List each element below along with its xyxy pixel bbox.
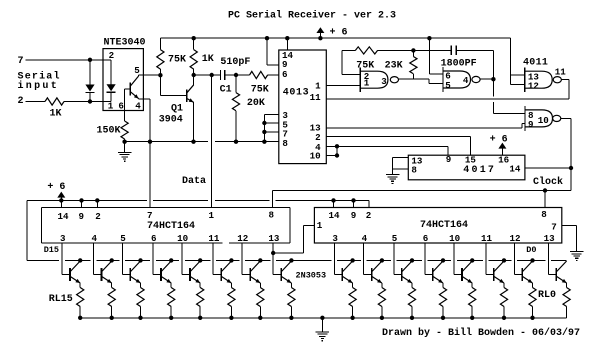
pin 11 label (4013) — [310, 92, 322, 103]
transistor Q5 (driver D3) — [462, 258, 474, 283]
svg-text:8: 8 — [541, 209, 547, 220]
transistor Q9 (driver D7) — [342, 258, 354, 283]
svg-text:1800PF: 1800PF — [441, 59, 477, 70]
svg-text:D15: D15 — [44, 245, 59, 255]
svg-text:7: 7 — [147, 210, 153, 221]
pin 7 label (right164) — [551, 222, 557, 233]
pin 6 label (left164 output Q3) — [151, 233, 157, 244]
wire +6 distribution (left) — [27, 200, 369, 207]
wire output D5 from shift register — [394, 243, 402, 275]
svg-text:12: 12 — [509, 233, 520, 244]
wire 75K to 4013 pin 6 — [268, 74, 279, 76]
svg-text:11: 11 — [310, 92, 322, 103]
pin 10 label (right164 output Q4) — [449, 233, 460, 244]
pin 5 label (right164 output Q2) — [392, 233, 398, 244]
wire opto junction to Q1 base — [160, 75, 186, 95]
pin 16 label (4017) — [498, 155, 509, 166]
wire C1 to 75K — [225, 73, 250, 77]
label 4017 — [463, 165, 496, 176]
svg-text:2: 2 — [366, 210, 372, 221]
node emitter junction D5 — [410, 316, 414, 320]
svg-text:6: 6 — [151, 233, 157, 244]
svg-text:1: 1 — [209, 210, 215, 221]
capacitor 1800pF — [451, 46, 456, 56]
wire gate1 out to gate2 pin5 — [399, 79, 444, 84]
pin 9 label (left164) — [79, 211, 85, 222]
pin 15 label (4017) — [465, 155, 477, 166]
pin 9 label (4013) — [282, 59, 288, 70]
svg-text:+ 6: + 6 — [330, 27, 348, 38]
svg-text:C1: C1 — [220, 85, 232, 96]
wire output D7 from shift register — [334, 243, 342, 275]
svg-text:1: 1 — [364, 78, 370, 89]
transistor Q13 (driver D11) — [190, 258, 202, 283]
ground (bottom rail) — [316, 316, 330, 341]
pin 12 label (right164 output Q6) — [509, 233, 520, 244]
resistor 23K — [410, 50, 417, 79]
label input — [18, 80, 60, 92]
transistor Q15 (driver D13) — [130, 258, 142, 283]
node emitter junction D8 — [289, 316, 293, 320]
wire +6 stubs right 74HCT164 — [331, 198, 355, 207]
label 1800PF — [441, 59, 477, 70]
svg-text:11: 11 — [481, 233, 493, 244]
svg-text:10: 10 — [310, 151, 321, 162]
svg-text:9: 9 — [351, 210, 357, 221]
svg-text:20K: 20K — [247, 98, 265, 109]
node emitter junction D1 — [530, 316, 534, 320]
pin 1 label (left164) — [209, 210, 215, 221]
transistor Q7 (driver D5) — [402, 258, 414, 283]
wire gate2 output — [480, 78, 493, 80]
pin 2 label (gate1) — [364, 71, 370, 82]
wire Q1 collector to C1 — [194, 73, 221, 77]
pin 3 label (right164 output Q0) — [332, 233, 338, 244]
resistor RL8 — [288, 283, 295, 318]
title text — [228, 10, 396, 22]
wire +6 to gate2 pin6 — [427, 36, 443, 74]
label 75K (opto pullup) — [168, 54, 186, 65]
label D0 — [526, 245, 536, 255]
label 1K (input resistor) — [50, 109, 62, 120]
flip-flop U2 4013 box — [279, 50, 327, 164]
power +6 arrow (left) — [47, 182, 65, 200]
pin 3 label (gate1) — [381, 76, 387, 87]
label 150K — [97, 126, 121, 137]
wire +6 rail (top) — [160, 37, 510, 39]
svg-text:2: 2 — [109, 50, 115, 61]
svg-text:3: 3 — [60, 233, 66, 244]
label 3904 — [159, 114, 183, 125]
svg-text:D0: D0 — [526, 245, 536, 255]
wire collector +6 rail (y260) — [27, 259, 566, 261]
svg-text:13: 13 — [268, 233, 280, 244]
wire 4017 pins 13+8 to ground — [393, 158, 409, 174]
wire serial-in pin2 to R-1K — [25, 101, 45, 103]
ground (150K node) — [118, 140, 132, 162]
pin 12 label (gate3) — [528, 81, 539, 92]
pin 2 label (opto) — [109, 50, 115, 61]
wire cascade left pin13 to right pin1 — [271, 226, 314, 256]
svg-text:4: 4 — [135, 100, 141, 111]
pin 12 label (left164 output Q6) — [237, 233, 248, 244]
svg-text:14: 14 — [328, 210, 340, 221]
svg-text:8: 8 — [269, 210, 275, 221]
op-amp U3a NAND gate 1 (4011 pins 2,1->3) — [360, 67, 398, 92]
ground (4017 pins 13,8) — [386, 169, 400, 184]
wire output D14 from shift register — [94, 243, 102, 275]
shift register U5 74HCT164 box (left) — [41, 208, 290, 244]
svg-text:8: 8 — [282, 138, 288, 149]
pin 3 label (4013) — [282, 110, 288, 121]
pin 13 label (right164 output Q7) — [544, 233, 556, 244]
pin 2 label (left164) — [95, 211, 101, 222]
wire ground net (y142) — [125, 141, 279, 143]
svg-text:3: 3 — [381, 76, 387, 87]
svg-text:5: 5 — [392, 233, 398, 244]
label Data — [182, 176, 206, 187]
power +6 arrow (top) — [316, 27, 324, 40]
svg-text:1: 1 — [315, 80, 321, 91]
svg-text:8: 8 — [411, 164, 417, 175]
label 20K — [247, 98, 265, 109]
wire serial-in pin7 to optocoupler anode — [25, 58, 111, 62]
svg-text:2N3053: 2N3053 — [296, 270, 327, 280]
pin 9 label (right164) — [351, 210, 357, 221]
wire 4013 pin2 to 4017 pin15 — [326, 137, 470, 156]
wire output D3 from shift register — [454, 243, 462, 275]
pin 6 label (opto) — [118, 100, 124, 111]
transistor Q16 (driver D14) — [102, 258, 114, 283]
resistor RL7 — [349, 283, 356, 318]
wire 4013 pin13 to gate4 pin9 — [326, 124, 525, 128]
svg-text:4017: 4017 — [463, 165, 496, 176]
node emitter junction D4 — [441, 316, 445, 320]
svg-text:RL15: RL15 — [49, 294, 73, 305]
shift register U6 74HCT164 box (right) — [314, 208, 561, 244]
wire output D8 from shift register — [273, 243, 281, 275]
svg-text:3: 3 — [332, 233, 338, 244]
svg-text:Q1: Q1 — [171, 104, 183, 115]
wire output D12 from shift register — [153, 243, 161, 275]
pin 1 label (gate1) — [364, 78, 370, 89]
node emitter junction D14 — [110, 316, 114, 320]
label Q1 — [171, 104, 183, 115]
resistor 1K (Q1 collector) — [190, 36, 197, 75]
pin 8 label (4013) — [282, 138, 288, 149]
label 4013 — [283, 87, 309, 98]
transistor Q12 (driver D10) — [221, 258, 233, 283]
wire 4013 pins 3/5/7/8 bus — [262, 114, 279, 143]
pin 8 label (right164) — [541, 209, 547, 220]
svg-text:6: 6 — [423, 233, 429, 244]
svg-text:4013: 4013 — [283, 87, 309, 98]
svg-text:+ 6: + 6 — [490, 134, 508, 145]
svg-text:RL0: RL0 — [538, 290, 556, 301]
wire output D11 from shift register — [182, 243, 190, 275]
label 1K (Q1 collector) — [202, 54, 214, 65]
counter U4 4017 box — [408, 155, 525, 180]
pin 5 label (gate2) — [445, 80, 451, 91]
node emitter junction D10 — [229, 316, 233, 320]
svg-text:4: 4 — [463, 75, 469, 86]
svg-text:7: 7 — [18, 56, 24, 67]
svg-text:3904: 3904 — [159, 114, 183, 125]
pin 3 label (left164 output Q0) — [60, 233, 66, 244]
resistor RL3 — [469, 283, 476, 318]
transistor Q11 (driver D9) — [250, 258, 262, 283]
svg-text:6: 6 — [282, 69, 288, 80]
transistor Q1 2N3904 — [187, 73, 196, 102]
pin 13 label (4013) — [310, 123, 322, 134]
resistor RL10 — [228, 283, 235, 318]
wire 4013 pin4 to 4017 pin9 — [337, 146, 448, 155]
ground (right164 pin7) — [570, 245, 584, 260]
wire 75K to 23K node — [378, 48, 452, 52]
svg-text:74HCT164: 74HCT164 — [147, 221, 195, 232]
wire output D15 from shift register — [62, 243, 70, 275]
svg-text:9: 9 — [528, 119, 534, 130]
pin 4 label (opto) — [135, 100, 141, 111]
svg-text:23K: 23K — [385, 61, 403, 72]
label 75K (feedback) — [356, 61, 374, 72]
svg-text:5: 5 — [134, 65, 140, 76]
svg-text:Clock: Clock — [533, 176, 563, 188]
svg-text:10: 10 — [538, 115, 549, 126]
resistor RL15 — [77, 283, 84, 318]
op-amp U3d NAND gate 4 (4011 pins 8,9->10) — [525, 106, 561, 131]
pin 13 label (gate3) — [528, 71, 540, 82]
svg-text:2: 2 — [18, 96, 24, 107]
transistor Q10 (driver D8) — [281, 258, 293, 283]
pin 10 label (4013) — [310, 151, 321, 162]
wire right164 pin7 to ground — [562, 225, 577, 251]
capacitor C1 510pF — [221, 70, 225, 80]
svg-text:12: 12 — [528, 81, 539, 92]
label Clock — [533, 176, 563, 188]
resistor 75K (to 4013 pin6) — [250, 71, 268, 78]
label 74HCT164 (right) — [420, 220, 468, 231]
svg-text:11: 11 — [555, 66, 567, 77]
wire +6 to collector rail (left drop) — [26, 200, 28, 260]
svg-text:16: 16 — [498, 155, 509, 166]
transistor Q14 (driver D12) — [161, 258, 173, 283]
pin 4 label (right164 output Q1) — [362, 233, 368, 244]
pin 14 label (left164) — [57, 211, 69, 222]
resistor RL13 — [137, 283, 144, 318]
label 2N3053 — [296, 270, 327, 280]
pin 14 label (4017) — [509, 163, 521, 174]
wire output D2 from shift register — [486, 243, 494, 275]
pin 4 label (gate2) — [463, 75, 469, 86]
pin 1 label (4013) — [315, 80, 321, 91]
resistor RL5 — [408, 283, 415, 318]
wire 150K to ground node — [124, 139, 126, 142]
pin 8 label (gate4) — [528, 110, 534, 121]
resistor 20K — [232, 75, 239, 144]
pin 6 label (4013) — [282, 69, 288, 80]
wire output D6 from shift register — [364, 243, 372, 275]
svg-text:Drawn by - Bill Bowden - 06/03: Drawn by - Bill Bowden - 06/03/97 — [382, 327, 580, 339]
label D15 — [44, 245, 59, 255]
pin 2 label (4013) — [315, 132, 321, 143]
svg-text:12: 12 — [237, 233, 248, 244]
pin 14 label (4013) — [282, 50, 294, 61]
pin 5 label (opto) — [134, 65, 140, 76]
svg-text:9: 9 — [79, 211, 85, 222]
wire output D4 from shift register — [425, 243, 433, 275]
optocoupler U1 NTE3040 box — [103, 49, 143, 111]
resistor RL1 — [529, 283, 536, 318]
node emitter junction D9 — [258, 316, 262, 320]
pin 13 label (left164 output Q7) — [268, 233, 280, 244]
pin 11 label (left164 output Q5) — [208, 233, 220, 244]
credit text — [382, 327, 580, 339]
wire opto pin4/emitter to ground rail — [139, 99, 153, 144]
resistor RL9 — [257, 283, 264, 318]
pin 4 label (left164 output Q1) — [91, 233, 97, 244]
svg-text:14: 14 — [57, 211, 69, 222]
svg-text:5: 5 — [120, 233, 126, 244]
resistor 150K — [121, 121, 128, 139]
wire Data line (vertical) — [211, 75, 213, 208]
resistor RL12 — [168, 283, 175, 318]
svg-text:PC Serial Receiver - ver 2.3: PC Serial Receiver - ver 2.3 — [228, 10, 396, 22]
pin 10 label (left164 output Q4) — [177, 233, 188, 244]
wire clock net — [273, 188, 572, 207]
transistor Q17 (driver D15) — [70, 258, 82, 283]
pin 2 label (right164) — [366, 210, 372, 221]
node 7 (serial input pin 7 label) — [18, 56, 24, 67]
svg-text:1K: 1K — [202, 54, 214, 65]
wire +6 rail to gate3 inputs — [511, 38, 525, 84]
svg-text:NTE3040: NTE3040 — [104, 38, 146, 49]
op-amp U3b NAND gate 2 (4011 pins 6,5->4) — [443, 67, 480, 92]
svg-text:1K: 1K — [50, 109, 62, 120]
svg-text:4: 4 — [362, 233, 368, 244]
wire R-1K to optocoupler cathode — [64, 99, 111, 103]
label RL0 — [538, 290, 556, 301]
resistor RL11 — [197, 283, 204, 318]
svg-text:1: 1 — [108, 100, 114, 111]
phototransistor (opto output) — [130, 75, 138, 98]
svg-text:14: 14 — [509, 163, 521, 174]
svg-text:75K: 75K — [251, 85, 269, 96]
wire 4013 pins4+10 junction — [326, 144, 339, 158]
node emitter junction D15 — [78, 316, 82, 320]
wire +6 to 4013 pin 9 — [265, 36, 279, 65]
label RL15 — [49, 294, 73, 305]
pin 5 label (left164 output Q2) — [120, 233, 126, 244]
svg-text:75K: 75K — [356, 61, 374, 72]
svg-text:1: 1 — [317, 220, 323, 231]
svg-text:11: 11 — [208, 233, 220, 244]
svg-text:+ 6: + 6 — [47, 182, 65, 193]
svg-text:6: 6 — [118, 100, 124, 111]
transistor Q8 (driver D6) — [372, 258, 384, 283]
pin 8 label (4017) — [411, 164, 417, 175]
label C1 — [220, 85, 232, 96]
pin 9 label (4017) — [446, 154, 452, 165]
label NTE3040 — [104, 38, 146, 49]
resistor RL14 — [108, 283, 115, 318]
pin 10 label (gate4) — [538, 115, 549, 126]
node emitter junction D6 — [380, 316, 384, 320]
wire emitter ground rail (bottom) — [80, 317, 566, 319]
node emitter junction D13 — [138, 316, 142, 320]
svg-text:75K: 75K — [168, 54, 186, 65]
node emitter junction D3 — [470, 316, 474, 320]
svg-text:10: 10 — [177, 233, 188, 244]
pin 6 label (right164 output Q3) — [423, 233, 429, 244]
node emitter junction D2 — [502, 316, 506, 320]
resistor 75K (opto pullup) — [157, 38, 164, 75]
pin 11 label (gate3) — [555, 66, 567, 77]
node 2 (serial input pin 2 label) — [18, 96, 24, 107]
wire gate3 out to 4013 pin 11 — [326, 80, 569, 100]
wire output D1 from shift register — [514, 243, 522, 275]
svg-text:Data: Data — [182, 176, 206, 187]
wire feedback loop top — [342, 50, 360, 74]
wire +6 to 4013 pin 14 — [285, 36, 289, 50]
op-amp U3c NAND gate 3 (4011 pins 13,12->11) — [525, 67, 562, 92]
pin 1 label (right164) — [317, 220, 323, 231]
transistor Q2 (driver D0) — [556, 261, 566, 283]
pin 14 label (right164) — [328, 210, 340, 221]
svg-text:2: 2 — [95, 211, 101, 222]
svg-text:5: 5 — [445, 80, 451, 91]
wire output D0 from shift register — [548, 243, 556, 275]
wire Q1 emitter to ground rail — [191, 102, 195, 144]
resistor 1K (input) — [45, 98, 64, 105]
svg-text:150K: 150K — [97, 126, 121, 137]
wire output D10 from shift register — [213, 243, 221, 275]
resistor 75K (feedback) — [355, 47, 377, 54]
label 74HCT164 (left) — [147, 221, 195, 232]
svg-text:4: 4 — [91, 233, 97, 244]
pin 7 label (left164) — [147, 210, 153, 221]
wire opto pin6 to 150K — [125, 89, 131, 121]
svg-text:9: 9 — [446, 154, 452, 165]
svg-text:13: 13 — [544, 233, 556, 244]
transistor Q3 (driver D1) — [522, 258, 534, 283]
transistor Q6 (driver D4) — [433, 258, 445, 283]
pin 5 label (4013) — [282, 119, 288, 130]
LED inside optocoupler — [107, 60, 116, 102]
wire opto pin5 to 75K junction — [138, 73, 162, 77]
node emitter junction D7 — [350, 316, 354, 320]
pin 6 label (gate2) — [445, 71, 451, 82]
pin 13 label (4017) — [411, 155, 423, 166]
resistor RL0 — [563, 283, 570, 318]
pin 9 label (gate4) — [528, 119, 534, 130]
wire output D9 from shift register — [242, 243, 250, 275]
diode D1 (input clamp) — [85, 60, 94, 102]
label +6 (top) — [330, 27, 348, 38]
pin 7 label (4013) — [282, 128, 288, 139]
wire output D13 from shift register — [122, 243, 130, 275]
label Serial — [18, 70, 61, 82]
resistor RL2 — [500, 283, 507, 318]
svg-text:7: 7 — [551, 222, 557, 233]
svg-text:74HCT164: 74HCT164 — [420, 220, 468, 231]
node emitter junction D12 — [169, 316, 173, 320]
svg-text:15: 15 — [465, 155, 477, 166]
node emitter junction D11 — [198, 316, 202, 320]
wire 4017 pin14 to gate4 output — [525, 166, 573, 170]
svg-text:input: input — [18, 80, 60, 92]
wire left164 pin7 to ground net — [149, 142, 151, 208]
